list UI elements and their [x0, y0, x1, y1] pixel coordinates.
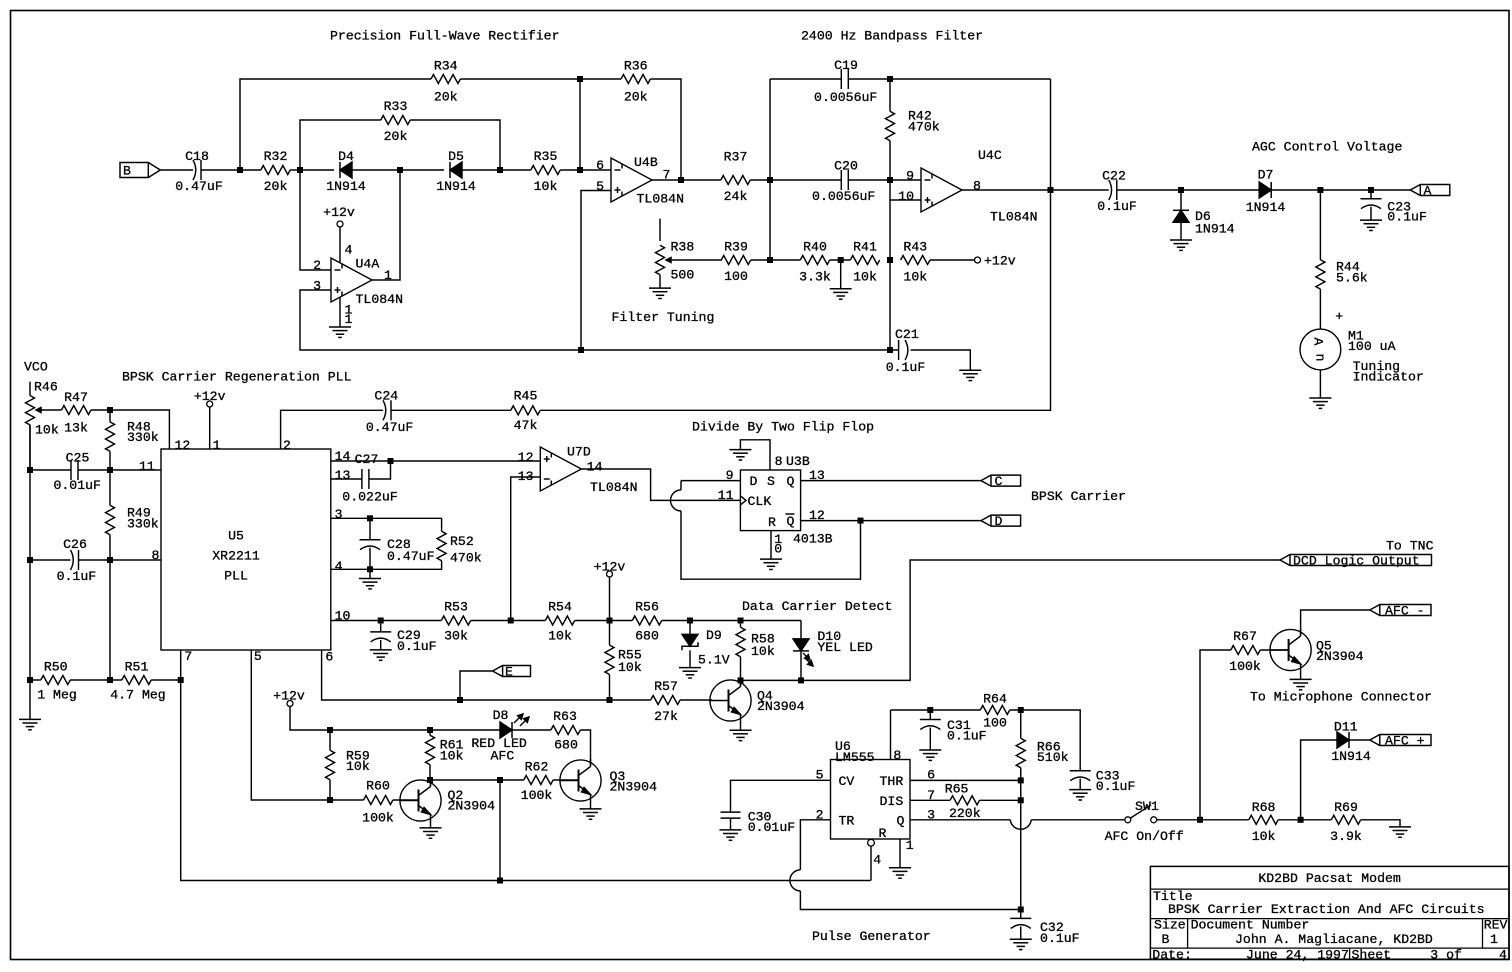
connector C: [981, 475, 1021, 486]
wire: [580, 730, 590, 767]
wire: [290, 169, 334, 171]
power +12v U5 pin 1: [207, 401, 213, 407]
svg-text:1N914: 1N914: [436, 179, 476, 194]
resistor R56: [632, 616, 661, 625]
svg-text:47k: 47k: [514, 418, 538, 433]
svg-text:5: 5: [254, 649, 262, 664]
svg-text:R67: R67: [1233, 629, 1257, 644]
svg-text:U7D: U7D: [567, 445, 591, 460]
svg-text:R41: R41: [853, 240, 877, 255]
wire: ground stem: [369, 569, 371, 578]
junction: [107, 557, 113, 563]
svg-text:6: 6: [325, 650, 333, 665]
title block frame: [1150, 866, 1509, 959]
resistor R40: [800, 256, 829, 265]
wire: [393, 799, 419, 801]
ground: [1309, 397, 1331, 399]
wire: [1010, 710, 1080, 771]
svg-text:0.01uF: 0.01uF: [748, 820, 795, 835]
svg-text:u: u: [1313, 354, 1328, 362]
svg-text:8: 8: [973, 179, 981, 194]
svg-text:Precision Full-Wave Rectifier: Precision Full-Wave Rectifier: [330, 29, 560, 44]
ground: [1360, 219, 1382, 221]
svg-text:LM555: LM555: [835, 750, 875, 765]
ground: [830, 288, 852, 290]
svg-text:R: R: [879, 826, 887, 841]
wire: U4A inverting input: [300, 170, 331, 270]
svg-text:R43: R43: [903, 240, 927, 255]
svg-text:20k: 20k: [384, 129, 408, 144]
svg-text:13: 13: [335, 468, 351, 483]
svg-text:SW1: SW1: [1135, 799, 1159, 814]
svg-text:June 24, 1997: June 24, 1997: [1246, 948, 1349, 963]
svg-text:14: 14: [587, 460, 603, 475]
svg-text:C26: C26: [63, 537, 87, 552]
svg-text:BPSK Carrier Regeneration PLL: BPSK Carrier Regeneration PLL: [122, 370, 352, 385]
ground: [420, 827, 442, 829]
junction: [1018, 907, 1024, 913]
wire: pin 8 Vcc stub: [890, 710, 892, 760]
junction: [738, 677, 744, 683]
svg-text:1N914: 1N914: [1246, 200, 1286, 215]
svg-text:CLK: CLK: [748, 494, 772, 509]
svg-text:1: 1: [384, 268, 392, 283]
wire: [460, 78, 621, 80]
wire: +12v rail to LED D8: [290, 707, 500, 731]
svg-text:R65: R65: [945, 782, 969, 797]
wire: U4C pin10: [890, 199, 921, 201]
pin 11 ground U4A: [339, 297, 341, 327]
junction: [767, 257, 773, 263]
svg-text:2400 Hz Bandpass Filter: 2400 Hz Bandpass Filter: [801, 29, 983, 44]
wire: pin 14: [331, 460, 540, 462]
connector DCD Logic Output: [1280, 555, 1432, 566]
svg-text:DIS: DIS: [880, 794, 904, 809]
junction: [237, 167, 243, 173]
svg-text:0.47uF: 0.47uF: [175, 179, 222, 194]
wire: [1349, 739, 1370, 741]
svg-text:2N3904: 2N3904: [757, 699, 805, 714]
ground: [730, 729, 752, 731]
wire: pin 6 net: [322, 650, 651, 700]
svg-text:R47: R47: [64, 390, 88, 405]
svg-text:2: 2: [283, 438, 291, 453]
svg-text:3 of: 3 of: [1430, 948, 1462, 963]
svg-text:D9: D9: [706, 628, 722, 643]
junction: [578, 347, 584, 353]
wire: pin 8 to ground: [740, 440, 770, 470]
wire: [331, 561, 442, 570]
junction: [838, 257, 844, 263]
svg-text:BPSK Carrier Extraction And AF: BPSK Carrier Extraction And AFC Circuits: [1168, 902, 1485, 917]
svg-text:6: 6: [596, 158, 604, 173]
svg-text:Divide By Two Flip Flop: Divide By Two Flip Flop: [692, 420, 874, 435]
wire: Qbar to D feedback with hop: [681, 480, 740, 482]
svg-text:2: 2: [313, 258, 321, 273]
junction: [858, 518, 864, 524]
resistor R67: [1231, 646, 1260, 655]
wire: pin 3 / R52: [331, 518, 442, 531]
svg-text:9: 9: [906, 169, 914, 184]
ground: [370, 649, 392, 651]
wire: U7D output to CLK: [581, 469, 740, 500]
resistor R51: [122, 676, 151, 685]
diode D11: [1348, 732, 1350, 748]
svg-text:0.1uF: 0.1uF: [397, 639, 437, 654]
wire: U4B output: [652, 179, 721, 181]
svg-text:10k: 10k: [751, 644, 775, 659]
junction: [767, 177, 773, 183]
LED D10 arrows: [803, 653, 810, 660]
wire: [209, 407, 211, 449]
wire: [201, 169, 261, 171]
wire: R64 rail: [891, 709, 981, 711]
svg-text:AFC -: AFC -: [1385, 604, 1425, 619]
svg-text:U4C: U4C: [978, 148, 1002, 163]
wire: [560, 169, 611, 171]
resistor R60: [364, 796, 393, 805]
wire: [650, 79, 681, 180]
svg-text:0.1uF: 0.1uF: [1387, 210, 1427, 225]
resistor R37: [721, 176, 750, 185]
svg-text:R34: R34: [434, 59, 458, 74]
svg-text:To Microphone Connector: To Microphone Connector: [1250, 689, 1432, 704]
junction: [378, 618, 384, 624]
svg-text:0.0056uF: 0.0056uF: [812, 189, 875, 204]
svg-text:24k: 24k: [724, 189, 748, 204]
svg-text:B: B: [1162, 932, 1170, 947]
svg-text:10k: 10k: [903, 269, 927, 284]
ground: [1069, 789, 1091, 791]
transistor Q2: [400, 780, 441, 821]
svg-text:R45: R45: [514, 389, 538, 404]
svg-text:+12v: +12v: [273, 689, 305, 704]
svg-text:R32: R32: [264, 149, 288, 164]
resistor R34: [431, 75, 460, 84]
junction: [178, 677, 184, 683]
wire: [460, 671, 493, 700]
capacitor C26: [71, 550, 74, 570]
LED D8: [511, 722, 513, 738]
wire: U4B pin5 to rail: [581, 191, 611, 351]
svg-text:CV: CV: [839, 774, 855, 789]
wire: [740, 679, 742, 687]
svg-text:R63: R63: [553, 709, 577, 724]
wire: R67 branch: [1200, 650, 1231, 820]
svg-text:R46: R46: [34, 380, 58, 395]
svg-text:470k: 470k: [450, 551, 482, 566]
capacitor C24: [383, 400, 386, 420]
resistor R49: [109, 470, 111, 505]
svg-text:0.1uF: 0.1uF: [1040, 931, 1080, 946]
IC U3B 4013B: [740, 470, 800, 531]
svg-text:4: 4: [1499, 948, 1507, 963]
wire: DIS / R65: [910, 799, 950, 801]
resistor R50: [41, 676, 70, 685]
wire: [750, 179, 838, 181]
svg-text:2N3904: 2N3904: [1316, 649, 1364, 664]
resistor R33: [381, 116, 410, 125]
resistor R59: [329, 730, 331, 750]
junction: [427, 727, 433, 733]
wire: [1319, 370, 1321, 398]
diode D4: [339, 162, 341, 178]
power +12v: [975, 257, 981, 263]
svg-text:D: D: [750, 474, 758, 489]
ground: [959, 369, 981, 371]
svg-text:C19: C19: [834, 58, 858, 73]
power +12v: [607, 571, 613, 577]
wire: pin 2 to C24: [281, 410, 383, 449]
resistor R45: [511, 406, 540, 415]
wire: [609, 577, 611, 645]
capacitor C31: [929, 710, 931, 720]
svg-text:680: 680: [554, 738, 578, 753]
svg-text:REV: REV: [1484, 917, 1508, 932]
svg-text:AFC On/Off: AFC On/Off: [1105, 829, 1184, 844]
wire: [575, 620, 633, 622]
ground: [649, 287, 671, 289]
svg-text:4.7 Meg: 4.7 Meg: [110, 688, 165, 703]
capacitor C33: [1070, 770, 1091, 772]
ground: [359, 578, 381, 580]
svg-text:C21: C21: [895, 327, 919, 342]
svg-text:THR: THR: [880, 774, 904, 789]
op-amp U4A: [331, 258, 372, 302]
svg-text:0.1uF: 0.1uF: [947, 729, 987, 744]
wire: [430, 779, 432, 787]
svg-text:D5: D5: [448, 149, 464, 164]
svg-text:5.6k: 5.6k: [1336, 271, 1368, 286]
svg-text:10k: 10k: [346, 759, 370, 774]
potentiometer R46: [29, 382, 31, 396]
svg-text:Sheet: Sheet: [1352, 948, 1392, 963]
resistor R36: [621, 75, 650, 84]
svg-text:4013B: 4013B: [793, 532, 833, 547]
wire: R45 to U4C output node: [540, 79, 1050, 410]
svg-text:E: E: [505, 665, 513, 680]
junction: [1048, 187, 1054, 193]
svg-text:Date:: Date:: [1152, 948, 1192, 963]
clock wedge: [740, 496, 746, 505]
svg-text:Pulse Generator: Pulse Generator: [812, 929, 931, 944]
svg-text:0.47uF: 0.47uF: [366, 420, 413, 435]
wire: [30, 559, 71, 561]
op-amp U7D: [540, 447, 581, 491]
junction: [388, 458, 394, 464]
svg-text:R68: R68: [1252, 800, 1276, 815]
wiper arrow R46: [36, 409, 62, 411]
resistor R41: [850, 256, 879, 265]
svg-text:0.1uF: 0.1uF: [1096, 779, 1136, 794]
wire: U4C output: [962, 189, 1109, 191]
svg-text:R51: R51: [125, 659, 149, 674]
resistor R44: [1319, 190, 1321, 260]
svg-text:1 Meg: 1 Meg: [37, 688, 77, 703]
LED D10: [800, 621, 802, 639]
svg-text:0.47uF: 0.47uF: [387, 549, 434, 564]
svg-text:2N3904: 2N3904: [448, 799, 496, 814]
svg-text:C25: C25: [66, 451, 90, 466]
svg-text:510k: 510k: [1037, 750, 1069, 765]
junction: [887, 177, 893, 183]
svg-text:U5: U5: [228, 529, 244, 544]
resistor R69: [1331, 815, 1360, 824]
junction: [798, 677, 804, 683]
connector AFC +: [1370, 735, 1431, 746]
wire: Q output with hop: [910, 819, 1010, 821]
wire: [553, 779, 578, 781]
ground: [1389, 826, 1411, 828]
capacitor C23: [1370, 190, 1372, 199]
junction: [887, 257, 893, 263]
svg-text:DCD Logic Output: DCD Logic Output: [1293, 554, 1420, 569]
wire: x1020 vertical: [1020, 780, 1022, 909]
wire: pin 10 ground stem: [770, 531, 772, 560]
junction: [457, 697, 463, 703]
wire: [70, 679, 122, 681]
svg-text:2N3904: 2N3904: [610, 780, 658, 795]
svg-text:Filter Tuning: Filter Tuning: [612, 310, 715, 325]
wire: DCD net: [741, 560, 1281, 680]
svg-text:680: 680: [635, 629, 659, 644]
svg-text:0.1uF: 0.1uF: [57, 569, 97, 584]
transistor Q4: [710, 680, 751, 721]
svg-text:Size: Size: [1154, 917, 1186, 932]
svg-text:1N914: 1N914: [326, 179, 366, 194]
capacitor C19: [840, 69, 842, 89]
junction: [738, 618, 744, 624]
junction: [327, 727, 333, 733]
svg-text:R57: R57: [654, 679, 678, 694]
capacitor C29: [380, 621, 382, 632]
svg-text:C: C: [995, 474, 1003, 489]
svg-text:100 uA: 100 uA: [1348, 339, 1396, 354]
transistor Q5: [1270, 629, 1311, 670]
wire: [30, 469, 71, 471]
svg-text:0.0056uF: 0.0056uF: [814, 90, 877, 105]
svg-text:100: 100: [983, 716, 1007, 731]
svg-text:U3B: U3B: [786, 454, 810, 469]
svg-text:D8: D8: [493, 708, 509, 723]
junction: [1178, 187, 1184, 193]
junction: [1298, 817, 1304, 823]
svg-text:13k: 13k: [64, 421, 88, 436]
wire: THR: [910, 779, 1021, 781]
svg-text:D7: D7: [1258, 168, 1274, 183]
resistor R35: [531, 166, 560, 175]
svg-text:5: 5: [596, 179, 604, 194]
junction: [497, 878, 503, 884]
junction: [1317, 187, 1323, 193]
resistor R61: [429, 730, 431, 735]
wire: [339, 227, 341, 262]
resistor R47: [62, 406, 91, 415]
svg-text:B: B: [123, 164, 131, 179]
wire: [330, 799, 364, 801]
svg-text:500: 500: [671, 268, 695, 283]
wire: pin 13 via C27: [331, 478, 362, 480]
svg-text:R60: R60: [366, 779, 390, 794]
wire: [830, 259, 851, 261]
svg-text:R53: R53: [444, 600, 468, 615]
svg-text:330k: 330k: [127, 516, 159, 531]
ground: [329, 326, 351, 328]
ground: [679, 667, 701, 669]
wire: [838, 179, 841, 181]
svg-text:100k: 100k: [362, 810, 394, 825]
svg-text:0.1uF: 0.1uF: [1097, 199, 1137, 214]
resistor R65: [950, 796, 979, 805]
svg-text:470k: 470k: [908, 120, 940, 135]
resistor R42: [889, 79, 891, 111]
svg-text:1: 1: [906, 838, 914, 853]
wire: [391, 409, 511, 411]
ground: [580, 808, 602, 810]
svg-text:10: 10: [335, 609, 351, 624]
svg-text:1: 1: [345, 312, 353, 327]
svg-text:KD2BD Pacsat Modem: KD2BD Pacsat Modem: [1258, 871, 1401, 886]
svg-text:R36: R36: [624, 59, 648, 74]
junction: [297, 167, 303, 173]
resistor R53: [441, 616, 470, 625]
wiper arrow R38: [666, 259, 722, 261]
svg-text:Indicator: Indicator: [1353, 369, 1424, 384]
wire: pin 11: [78, 469, 161, 471]
connector E: [493, 666, 531, 677]
svg-text:BPSK Carrier: BPSK Carrier: [1031, 489, 1126, 504]
resistor R52: [437, 531, 446, 560]
svg-text:12: 12: [518, 450, 534, 465]
ground: [19, 718, 41, 720]
wire: Q2 collector node: [430, 779, 524, 781]
wire: x500 vertical: [499, 780, 501, 881]
wire: CV to C30: [731, 780, 831, 812]
resistor R55: [605, 645, 614, 674]
connector AFC -: [1370, 605, 1431, 616]
power +12v: [287, 701, 293, 707]
svg-text:3.9k: 3.9k: [1330, 829, 1362, 844]
wire: [410, 120, 500, 170]
svg-text:R62: R62: [525, 760, 549, 775]
diode D7: [1270, 182, 1272, 198]
ground: [729, 449, 751, 451]
svg-text:R40: R40: [803, 239, 827, 254]
wire: [848, 78, 1050, 80]
capacitor C25: [70, 460, 72, 480]
svg-text:10k: 10k: [35, 423, 59, 438]
svg-text:7: 7: [184, 649, 192, 664]
svg-text:5.1V: 5.1V: [698, 653, 730, 668]
svg-text:C18: C18: [185, 149, 209, 164]
junction: [577, 76, 583, 82]
svg-text:D4: D4: [338, 149, 354, 164]
resistor R64: [980, 706, 1009, 715]
wire: [29, 425, 31, 680]
svg-text:10k: 10k: [1252, 829, 1276, 844]
wire: pin 8: [79, 559, 162, 561]
svg-text:R39: R39: [724, 240, 748, 255]
wire: R33 feedback branch: [300, 120, 381, 170]
junction: [687, 618, 693, 624]
junction: [107, 677, 113, 683]
op-amp U4C: [921, 168, 962, 212]
svg-text:100k: 100k: [521, 788, 553, 803]
svg-text:TL084N: TL084N: [356, 292, 403, 307]
capacitor C27: [361, 469, 363, 489]
wire: pin 5 to Q2 base node: [251, 650, 330, 800]
wire: [870, 846, 872, 880]
